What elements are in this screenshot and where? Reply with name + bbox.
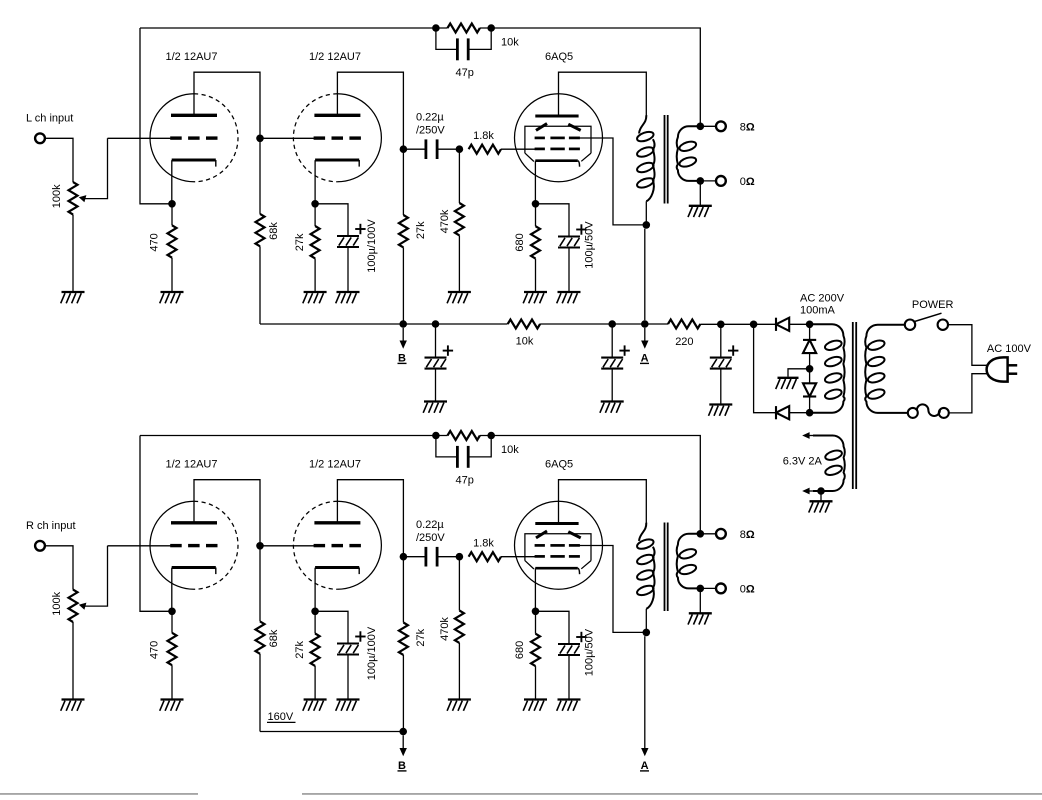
resistor 680 cathode 6AQ5 (R) [535,611,537,633]
diode D4 bottom [776,406,789,419]
wire wiper to V1 grid (R) [108,545,172,547]
capacitor filter 1 (A node) [611,324,613,358]
wire center tap to ground [788,369,810,377]
ground: V2 cathode resistor (L) [303,292,327,303]
wire 6AQ5 plate to OPT (L) [559,72,647,116]
node: filter cap 1 junction [608,320,616,328]
node: D1/D2 junction [806,321,814,329]
border line bottom right [302,793,1042,795]
svg-text:27k: 27k [294,641,306,659]
wire 6AQ5 plate to OPT (R) [559,480,647,524]
terminal 8 ohm (L) [716,121,726,131]
wire V2 cathode down (R) [314,568,316,612]
resistor 10k dropper [508,320,540,329]
capacitor reservoir [720,324,722,357]
AC plug body [987,357,1008,381]
resistor 1.8k grid stopper (R) [469,552,501,561]
wire V2 cathode to bypass cap (R) [315,611,348,643]
wire B+ rail mid section [540,323,668,325]
pot bottom lead (L) [72,215,74,293]
svg-text:/250V: /250V [416,125,445,137]
ground: grid leak (L) [447,292,471,303]
node: 8 ohm tap (R) [697,530,705,538]
arrow node A (R) [641,731,648,756]
wire V1 plate to 68k node (R) [194,480,260,546]
output transformer primary (L) [639,115,646,133]
svg-text:6.3V 2A: 6.3V 2A [783,456,823,468]
power transformer core [853,322,856,489]
svg-text:1/2 12AU7: 1/2 12AU7 [166,51,218,63]
svg-text:470: 470 [149,233,161,251]
diode D3 [803,383,816,396]
node: feedback left (L) [432,24,440,32]
ground: 100u/50V (L) [557,292,581,303]
svg-text:6AQ5: 6AQ5 [545,51,573,63]
arrow node B (R) [400,735,407,756]
wire wiper to V1 grid (L) [108,137,172,139]
wire OPT primary bottom to node (L) [645,201,647,225]
arrow node B [400,328,407,349]
ground: reservoir cap [709,405,733,416]
wire input to volume pot (R) [45,546,73,590]
wire rail to rectifier [700,323,776,325]
diode D1 top [776,318,789,331]
wire junction to V2 grid (L) [260,137,315,139]
svg-text:47p: 47p [456,67,474,79]
wire 8 ohm tap to terminal (L) [700,125,716,127]
svg-text:8Ω: 8Ω [740,122,755,134]
svg-text:100µ/100V: 100µ/100V [366,626,378,680]
resistor 220 dropper [668,320,700,329]
resistor 68k plate load V1 (L) [259,138,261,214]
node: V1 cathode junction (R) [168,608,176,616]
ground: rectifier center tap [776,378,799,389]
ground: bypass cap (R) [336,700,360,711]
output transformer secondary (L) [677,126,701,181]
power transformer HV secondary AC 200V [812,324,845,412]
output transformer core (R) [665,523,668,612]
svg-text:100µ/100V: 100µ/100V [366,219,378,273]
svg-text:100µ/50V: 100µ/50V [584,628,596,676]
node: V1 plate / V2 grid junction (L) [256,135,264,143]
svg-text:10k: 10k [516,335,534,347]
node: heater ground junction [817,487,825,495]
svg-text:10k: 10k [501,444,519,456]
node: 0 ohm tap (L) [697,177,705,185]
svg-text:100k: 100k [51,184,63,208]
wire V2 plate to coupling node (L) [337,72,403,149]
resistor 470 cathode V1 (R) [171,611,173,633]
capacitor filter 2 (B node) [435,324,437,358]
svg-text:10k: 10k [501,36,519,48]
ground: 680 (L) [523,292,547,303]
node: feedback left (R) [432,432,440,440]
wire screen grid to B+ node (R) [579,546,647,633]
resistor 68k plate load V1 (R) [259,546,261,622]
node: D4 junction [806,409,814,417]
node: 6AQ5 cathode junction (L) [532,200,540,208]
power transformer primary winding [865,325,908,413]
ground: V1 cathode resistor (L) [160,292,184,303]
ground: pot (L) [61,292,85,303]
svg-text:100k: 100k [51,591,63,615]
svg-text:B: B [398,760,406,772]
wire V2 plate to coupling node (R) [337,480,403,557]
potentiometer 100k (L) [69,182,78,214]
node A [641,320,649,328]
svg-text:680: 680 [514,641,526,659]
fuse [908,404,949,418]
wire D3 to bottom node [809,397,811,413]
svg-text:220: 220 [675,336,693,348]
svg-text:1.8k: 1.8k [473,538,494,550]
wire 8 ohm tap to terminal (R) [700,533,716,535]
node: 8 ohm tap (L) [697,123,705,131]
svg-text:AC 100V: AC 100V [987,343,1032,355]
ground: pot (R) [61,700,85,711]
wire feedback to 8 ohm tap (R) [480,436,700,534]
node B (R) [399,728,407,736]
svg-text:1.8k: 1.8k [473,130,494,142]
node: OPT primary / screen junction (L) [643,221,651,229]
output transformer secondary (R) [677,534,701,589]
node: V2 cathode junction (L) [311,200,319,208]
diode D2 [803,340,816,353]
svg-text:47p: 47p [456,474,474,486]
capacitor 0.22u/250V coupling (R) [403,556,426,558]
node: D2/D3 center tap [806,365,814,373]
pot wiper arrow (R) [79,546,108,610]
pentode 6AQ5 (R) [515,501,603,589]
svg-text:27k: 27k [294,233,306,251]
node: V1 plate / V2 grid junction (R) [256,542,264,550]
wire V1 cathode down (R) [171,568,173,612]
ground: speaker return (L) [688,206,712,217]
svg-text:R ch input: R ch input [26,520,76,532]
resistor 10k feedback (R) [448,431,480,440]
capacitor 100u/100V cathode bypass (L) [337,224,366,247]
capacitor 47p feedback (L) [436,28,457,49]
wire V1 cathode down (L) [171,160,173,204]
svg-text:AC 200V: AC 200V [800,293,845,305]
wire junction to V2 grid (R) [260,545,315,547]
resistor 470k grid leak (L) [458,149,460,203]
triode V1 1/2 12AU7 (L) [150,94,238,182]
output transformer core (L) [665,115,668,204]
ground: 680 (R) [523,700,547,711]
wire D4 to transformer bottom [789,412,827,414]
power transformer 6.3V heater winding [813,436,845,492]
wire D2 link [809,324,811,383]
node: coupling cap left junction (L) [400,145,408,153]
wire: feedback line down left side (L) [140,28,169,204]
node: V1 cathode junction (L) [168,200,176,208]
svg-text:A: A [641,760,649,772]
output transformer primary (R) [639,523,646,541]
resistor 27k cathode V2 (R) [314,611,316,633]
border line bottom left [0,793,198,795]
node: V2 cathode junction (R) [311,608,319,616]
wire D1 to transformer [789,323,827,325]
node: 6AQ5 cathode junction (R) [532,608,540,616]
capacitor 100u/100V cathode bypass (R) [337,631,366,654]
svg-text:6AQ5: 6AQ5 [545,459,573,471]
svg-text:A: A [641,352,649,364]
svg-text:470k: 470k [439,617,451,641]
wire 0 ohm tap to terminal (R) [700,587,716,589]
wire V1 plate to 68k node (L) [194,72,260,138]
resistor 27k cathode V2 (L) [314,204,316,226]
node: filter cap 2 junction [432,320,440,328]
wire V2 cathode to bypass cap (L) [315,204,348,236]
ground: V2 cathode resistor (R) [303,700,327,711]
resistor 27k plate load V2 (R) [402,557,404,623]
potentiometer 100k (R) [69,590,78,622]
node: 0 ohm tap (R) [697,585,705,593]
wire plug to fuse [949,374,988,413]
wire rectifier left branch down [754,324,776,412]
resistor 470 cathode V1 (L) [171,204,173,226]
svg-text:27k: 27k [415,221,427,239]
wire feedback top (L) [140,27,448,29]
ground: speaker return (R) [688,613,712,624]
wire input to volume pot (L) [45,138,73,182]
capacitor 0.22u/250V coupling (L) [403,148,426,150]
wire 0 ohm to ground (R) [699,588,701,613]
pot bottom lead (R) [72,622,74,700]
resistor 27k plate load V2 (L) [402,149,404,215]
wire 0 ohm tap to terminal (L) [700,180,716,182]
node: coupling cap right junction (R) [456,553,464,561]
node: feedback right (R) [487,432,495,440]
resistor 680 cathode 6AQ5 (L) [535,204,537,226]
node: R channel input terminal [35,541,45,551]
arrow 6.3V bottom lead [802,488,813,495]
svg-text:/250V: /250V [416,532,445,544]
terminal 0 ohm (R) [716,584,726,594]
svg-text:0.22µ: 0.22µ [416,519,444,531]
svg-text:68k: 68k [268,629,280,647]
capacitor 100u/50V cathode bypass 6AQ5 (L) [558,224,587,247]
wire OPT primary bottom to node (R) [645,609,647,633]
resistor 10k feedback (L) [448,24,480,33]
node: feedback right (L) [487,24,495,32]
svg-text:27k: 27k [415,628,427,646]
svg-text:8Ω: 8Ω [740,529,755,541]
ground: heater winding [809,501,833,512]
node: OPT primary / screen junction (R) [643,629,651,637]
node: L channel input terminal [35,133,45,143]
wire V2 cathode down (L) [314,160,316,204]
svg-text:0Ω: 0Ω [740,584,755,596]
wire 0 ohm to ground (L) [699,181,701,206]
wire heater to ground [820,491,822,501]
node: rectifier minus branch [750,321,758,329]
wire node A down (R) [644,636,646,731]
wire 6AQ5 cathode to bypass (L) [536,204,570,237]
svg-text:L ch input: L ch input [26,113,73,125]
ground: bypass cap (L) [336,292,360,303]
svg-text:B: B [398,352,406,364]
wire B+ rail (R) [260,731,403,733]
svg-text:0.22µ: 0.22µ [416,112,444,124]
wire feedback to 8 ohm tap (L) [480,28,700,126]
svg-text:470: 470 [149,641,161,659]
wire screen grid to B+ node (L) [579,138,647,225]
svg-text:0Ω: 0Ω [740,176,755,188]
wire 6AQ5 cathode to bypass (R) [536,611,570,644]
plug prongs [1008,365,1018,373]
wire switch to plug [948,325,988,366]
node: reservoir cap junction [717,321,725,329]
terminal 8 ohm (R) [716,529,726,539]
node B [399,320,407,328]
svg-text:470k: 470k [439,209,451,233]
capacitor 100u/50V cathode bypass 6AQ5 (R) [558,632,587,655]
node: coupling cap left junction (R) [400,553,408,561]
triode V2 1/2 12AU7 (R) [293,501,381,589]
resistor 1.8k grid stopper (L) [469,145,501,154]
wire feedback top (R) [140,435,448,437]
pot wiper arrow (L) [79,138,108,202]
ground: filter cap 1 [600,402,624,413]
wire 6AQ5 cathode down (R) [534,568,536,611]
resistor 470k grid leak (R) [458,557,460,611]
node: coupling cap right junction (L) [456,145,464,153]
wire 6AQ5 cathode down (L) [534,161,536,204]
wire: feedback line down left side (R) [140,436,169,612]
arrow node A [641,328,648,349]
ground: 100u/50V (R) [557,700,581,711]
svg-text:POWER: POWER [912,299,954,311]
ground: grid leak (R) [447,700,471,711]
ground: V1 cathode resistor (R) [160,700,184,711]
svg-text:1/2 12AU7: 1/2 12AU7 [309,459,361,471]
switch POWER [905,313,948,330]
svg-text:1/2 12AU7: 1/2 12AU7 [309,51,361,63]
pentode 6AQ5 (L) [515,94,603,182]
wire node A up to OPT (L) [644,229,646,321]
triode V1 1/2 12AU7 (R) [150,501,238,589]
ground: filter cap 2 [423,402,447,413]
wire fuse to transformer primary [876,412,908,414]
svg-text:1/2 12AU7: 1/2 12AU7 [166,459,218,471]
svg-text:68k: 68k [268,222,280,240]
capacitor 47p feedback (R) [436,436,457,457]
arrow 6.3V top lead [802,432,813,439]
svg-text:100mA: 100mA [800,305,836,317]
svg-text:680: 680 [514,233,526,251]
wire B+ rail left section [260,323,508,325]
triode V2 1/2 12AU7 (L) [293,94,381,182]
svg-text:100µ/50V: 100µ/50V [584,221,596,269]
terminal 0 ohm (L) [716,176,726,186]
svg-text:160V: 160V [268,711,294,723]
